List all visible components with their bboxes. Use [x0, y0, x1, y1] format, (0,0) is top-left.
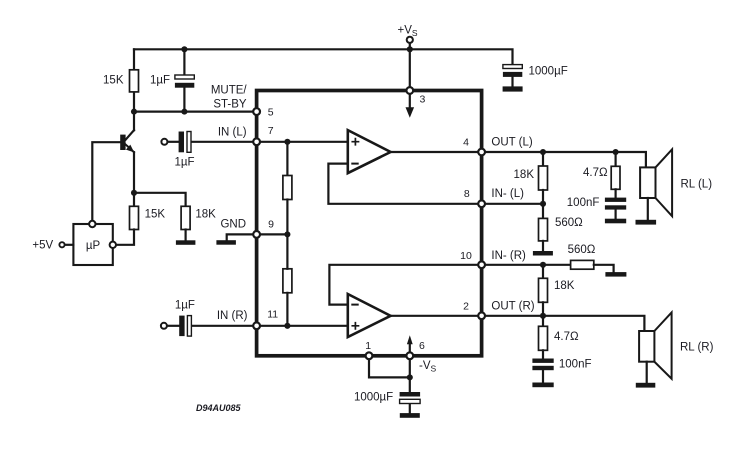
svg-text:1µF: 1µF: [150, 75, 170, 87]
svg-text:RL (R): RL (R): [680, 342, 714, 354]
svg-text:RL (L): RL (L): [681, 178, 713, 190]
svg-text:+VS: +VS: [398, 24, 418, 38]
wire U1A output to pin 4: [391, 151, 479, 153]
svg-text:OUT (L): OUT (L): [491, 137, 532, 149]
resistor R11 4.7ohm (right): [539, 316, 548, 359]
resistor R2 15K (bias): [116, 193, 139, 245]
pin 6: [406, 352, 413, 359]
svg-text:560Ω: 560Ω: [555, 217, 583, 229]
svg-text:2: 2: [463, 300, 469, 312]
wire IN-(L): [485, 203, 543, 205]
svg-text:GND: GND: [220, 218, 246, 230]
svg-text:560Ω: 560Ω: [568, 244, 596, 256]
capacitor C1 1uF (top): [175, 46, 194, 111]
svg-text:IN- (L): IN- (L): [491, 188, 524, 200]
resistor R9 560ohm (horizontal): [571, 260, 614, 272]
wire top supply rail: [134, 49, 513, 64]
speaker RL (R): [639, 312, 672, 382]
svg-text:IN- (R): IN- (R): [491, 250, 526, 262]
pin 2: [478, 312, 485, 319]
node mute junction B: [181, 109, 187, 115]
svg-text:OUT (R): OUT (R): [491, 300, 534, 312]
transistor Q1: [92, 112, 134, 221]
resistor R8 4.7ohm (left): [611, 152, 620, 198]
wire emitter to 18K: [134, 193, 186, 207]
resistor R10 18K (right fb): [539, 265, 548, 316]
node bias mid junction: [284, 231, 290, 237]
wire pin11 to op-amp B: [260, 325, 348, 327]
terminal +5V: [59, 242, 73, 247]
wire pin7 to op-amp A: [260, 141, 348, 143]
ground (560 right): [605, 272, 626, 277]
IC U1 outline: [257, 91, 482, 356]
resistor R3 18K (bias): [181, 206, 190, 240]
node OUT(L) j2: [613, 149, 619, 155]
ground (RL R): [636, 383, 656, 388]
pin 3 arrow: [406, 94, 415, 118]
svg-text:18K: 18K: [514, 169, 535, 181]
terminal +Vs: [407, 37, 413, 50]
node IN-(L) junction: [540, 201, 546, 207]
ground (100nF right): [532, 383, 553, 388]
svg-text:MUTE/: MUTE/: [211, 84, 248, 96]
pin 1: [366, 352, 373, 359]
resistor R5 (bias lower): [283, 234, 292, 325]
ground (RL L): [636, 220, 657, 225]
pin 4: [478, 149, 485, 156]
svg-text:5: 5: [268, 106, 274, 118]
svg-text:18K: 18K: [195, 208, 216, 220]
svg-text:1000µF: 1000µF: [354, 392, 393, 404]
node OUT(L) j1: [540, 149, 546, 155]
svg-text:100nF: 100nF: [559, 359, 592, 371]
svg-text:7: 7: [268, 125, 274, 137]
pin 3: [406, 87, 413, 94]
pin 9: [253, 231, 260, 238]
pin 5: [253, 108, 260, 115]
capacitor C6 100nF (left): [605, 198, 626, 219]
ground (bottom cap): [400, 413, 420, 418]
wire IN-(R): [485, 264, 571, 266]
svg-text:1000µF: 1000µF: [529, 65, 568, 77]
svg-text:IN (R): IN (R): [217, 310, 248, 322]
resistor R4 (bias upper): [283, 142, 292, 235]
capacitor C4 1000uF (top right): [503, 65, 522, 87]
node -Vs junction: [407, 374, 413, 380]
svg-text:3: 3: [419, 94, 425, 106]
node OUT(R) junction: [540, 313, 546, 319]
op-amp U1A: [348, 130, 391, 173]
svg-text:8: 8: [464, 188, 470, 200]
svg-text:1: 1: [365, 340, 371, 352]
ground (560 left): [533, 251, 553, 256]
pin 10: [478, 261, 485, 268]
capacitor C3 1uF (IN R): [161, 316, 253, 337]
svg-text:18K: 18K: [554, 280, 575, 292]
svg-text:D94AU085: D94AU085: [196, 403, 242, 413]
resistor R7 560ohm (left): [539, 204, 548, 251]
svg-text:IN (L): IN (L): [218, 126, 247, 138]
wire OUT(L): [485, 152, 646, 167]
wire mute/st-by line: [134, 110, 253, 112]
node mute junction A: [131, 109, 137, 115]
wire OUT(R): [485, 316, 645, 331]
svg-text:15K: 15K: [103, 75, 124, 87]
svg-text:+5V: +5V: [32, 239, 53, 251]
ground (100nF left): [605, 219, 626, 224]
pin 11: [253, 322, 260, 329]
capacitor C2 1uF (IN L): [161, 132, 253, 153]
svg-text:ST-BY: ST-BY: [213, 99, 247, 111]
resistor R6 18K (left fb): [539, 152, 548, 204]
svg-text:10: 10: [460, 250, 472, 262]
svg-text:-VS: -VS: [419, 360, 437, 374]
node bias bottom junction: [284, 323, 290, 329]
wire U1A feedback to pin 8: [328, 164, 478, 204]
svg-text:1µF: 1µF: [174, 157, 194, 169]
node IN-(R) junction: [540, 262, 546, 268]
svg-text:15K: 15K: [145, 208, 166, 220]
wire pin1/pin6 to -Vs cap: [369, 359, 410, 392]
pin 7: [253, 138, 260, 145]
ground (GND pin): [216, 234, 253, 244]
ground (top right cap): [503, 86, 523, 91]
svg-text:1µF: 1µF: [175, 300, 195, 312]
svg-text:4: 4: [463, 137, 469, 149]
svg-text:100nF: 100nF: [567, 197, 600, 209]
ground (18K left): [176, 240, 196, 245]
svg-text:6: 6: [419, 340, 425, 352]
svg-text:µP: µP: [86, 240, 101, 252]
svg-text:11: 11: [267, 309, 278, 321]
node +Vs junction: [407, 46, 413, 52]
pin 8: [478, 200, 485, 207]
node bias top junction: [284, 139, 290, 145]
micro-controller U2 uP box: [73, 221, 116, 265]
wire U1B output to pin 2: [391, 315, 479, 317]
pin 6 arrow: [407, 335, 413, 352]
capacitor C7 100nF (right): [532, 359, 553, 383]
resistor R1 15K (top left): [130, 49, 139, 111]
speaker RL (L): [640, 149, 672, 220]
wire +Vs to pin 3: [409, 49, 411, 88]
op-amp U1B: [348, 294, 391, 337]
wire gnd inside: [260, 233, 288, 235]
svg-text:4.7Ω: 4.7Ω: [583, 167, 608, 179]
wire U1B feedback to pin 10: [329, 265, 478, 305]
capacitor C5 1000uF (bottom): [400, 392, 421, 413]
svg-text:9: 9: [268, 219, 274, 231]
node emitter junction: [131, 190, 137, 196]
svg-text:4.7Ω: 4.7Ω: [554, 331, 579, 343]
